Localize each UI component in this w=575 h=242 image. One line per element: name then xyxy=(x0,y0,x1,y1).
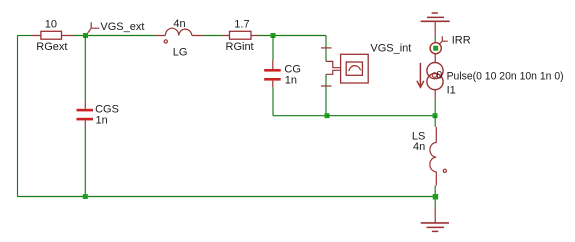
wire mid rail to LS node xyxy=(327,115,435,117)
wire CGS branch lower xyxy=(84,128,86,197)
wire CG branch lower xyxy=(273,87,327,115)
wire top rail RGint to corner xyxy=(259,36,327,62)
svg-text:RGext: RGext xyxy=(36,41,67,53)
label VGS_ext xyxy=(100,21,144,33)
current source I1 xyxy=(417,63,443,90)
ground top xyxy=(421,13,450,37)
wire CG branch upper xyxy=(272,36,274,61)
svg-text:VGS_ext: VGS_ext xyxy=(100,21,144,33)
wire left rail xyxy=(17,36,19,197)
inductor LG xyxy=(155,28,204,43)
voltmeter lead upper xyxy=(326,61,341,67)
node junction bottom right xyxy=(433,194,439,200)
wire bottom rail xyxy=(18,196,436,198)
svg-text:IRR: IRR xyxy=(452,35,471,47)
wire top rail to LG xyxy=(74,35,155,37)
capacitor CG xyxy=(264,60,281,87)
svg-text:10: 10 xyxy=(45,19,57,31)
label LG xyxy=(173,46,188,58)
label CG xyxy=(284,64,301,76)
wire green above LS junction xyxy=(434,98,436,116)
inductor LS xyxy=(430,127,447,186)
svg-text:RGint: RGint xyxy=(226,41,254,53)
value label 10 xyxy=(45,19,57,31)
label VGS_int xyxy=(370,43,411,55)
wire LS bottom green xyxy=(434,186,436,197)
svg-text:I1: I1 xyxy=(447,85,456,97)
voltmeter terminal tick top xyxy=(321,47,332,49)
wire LS top green xyxy=(434,116,436,127)
label RGint xyxy=(226,41,254,53)
wire ground to ammeter xyxy=(434,37,436,43)
svg-text:CGS: CGS xyxy=(95,103,119,115)
voltmeter lead lower xyxy=(326,70,341,74)
wire source to LS junction xyxy=(434,90,436,99)
value label 1n (CGS) xyxy=(96,115,108,127)
resistor RGext xyxy=(31,31,74,39)
value label 1.7 xyxy=(234,18,249,30)
capacitor CGS xyxy=(77,101,94,127)
voltmeter VGS_int body xyxy=(341,54,369,83)
resistor RGint xyxy=(222,31,258,39)
svg-text:1n: 1n xyxy=(96,115,108,127)
probe pin IRR xyxy=(439,36,448,44)
label LS xyxy=(412,131,425,143)
voltmeter terminal tick bottom xyxy=(321,85,332,87)
svg-text:VGS_int: VGS_int xyxy=(370,43,411,55)
label IRR xyxy=(452,35,471,47)
wire top rail LG to RGint xyxy=(204,35,222,37)
label I1 xyxy=(447,85,456,97)
wire voltmeter lower to bottom mid rail xyxy=(325,74,327,115)
label Pulse parameters xyxy=(447,71,564,83)
svg-text:LG: LG xyxy=(173,46,188,58)
ground bottom xyxy=(421,207,449,231)
wire top rail left segment xyxy=(18,35,32,37)
value label 4n (LS) xyxy=(413,141,425,153)
node junction at CG branch xyxy=(271,33,276,38)
wire junction to bottom ground xyxy=(434,200,436,208)
ammeter IRR circle xyxy=(430,43,441,54)
value label 4n (LG) xyxy=(173,18,185,30)
wire CGS branch upper xyxy=(84,36,86,102)
svg-text:4n: 4n xyxy=(173,18,185,30)
svg-text:0: 0 xyxy=(436,70,442,82)
svg-text:1.7: 1.7 xyxy=(234,18,249,30)
wire ammeter to source xyxy=(434,54,436,63)
svg-text:4n: 4n xyxy=(413,141,425,153)
probe pin VGS_ext xyxy=(88,22,100,33)
svg-text:1n: 1n xyxy=(285,75,297,87)
label RGext xyxy=(36,41,67,53)
value label 1n (CG) xyxy=(285,75,297,87)
node junction LS top xyxy=(433,113,438,118)
node junction mid rail xyxy=(325,113,330,118)
label CGS xyxy=(95,103,119,115)
node junction CGS bottom xyxy=(83,194,88,199)
svg-text:Pulse(0 10 20n 10n 1n 0): Pulse(0 10 20n 10n 1n 0) xyxy=(447,71,564,83)
node VGS_ext junction xyxy=(83,33,88,38)
